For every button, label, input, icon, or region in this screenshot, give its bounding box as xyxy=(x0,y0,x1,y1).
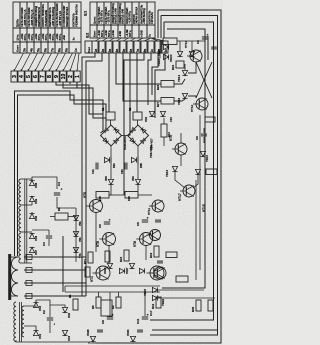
svg-text:50Гц: 50Гц xyxy=(128,30,132,37)
resistor R7 xyxy=(85,267,90,277)
svg-text:8а: 8а xyxy=(57,48,61,52)
wire loop hook 2 xyxy=(160,16,162,39)
svg-text:C1A: C1A xyxy=(92,169,95,174)
diode VD23 pair lower xyxy=(163,54,168,59)
svg-text:VT11: VT11 xyxy=(147,208,151,215)
capacitor C13 xyxy=(97,329,103,331)
diode VD7A chain xyxy=(73,247,78,252)
capacitor C8 top right xyxy=(202,36,208,38)
svg-text:VT12: VT12 xyxy=(190,104,194,112)
fan wires from table XS1 to pins xyxy=(14,53,23,71)
svg-text:VD8-V011: VD8-V011 xyxy=(149,145,153,158)
svg-text:R35: R35 xyxy=(191,306,195,312)
diode VD26 xyxy=(107,263,112,268)
svg-text:+: + xyxy=(52,323,56,325)
transistor VT10 xyxy=(190,50,202,62)
capacitor C5b polarized xyxy=(104,221,110,223)
svg-text:R19: R19 xyxy=(149,252,153,258)
wire XS2 pin 4v to R23 xyxy=(116,53,161,84)
svg-text:+: + xyxy=(146,217,150,219)
svg-text:C8: C8 xyxy=(196,40,200,44)
svg-text:1с: 1с xyxy=(72,37,76,41)
svg-text:VD10: VD10 xyxy=(205,155,209,162)
table XS2 band divider xyxy=(90,24,155,26)
svg-text:VD9: VD9 xyxy=(34,198,38,204)
wire T2 to bus bar xyxy=(11,256,18,258)
svg-text:R6B: R6B xyxy=(140,163,143,168)
wire bridge1 right vertex link xyxy=(122,135,128,137)
svg-text:1с: 1с xyxy=(74,48,78,52)
svg-text:VT9: VT9 xyxy=(169,135,173,141)
svg-text:VD8: VD8 xyxy=(34,182,38,188)
svg-text:VD14: VD14 xyxy=(177,75,181,82)
diode VD13 xyxy=(172,166,177,171)
svg-text:4в: 4в xyxy=(115,49,119,53)
wire lower-right horizontal y330 xyxy=(152,329,218,331)
wire XS2 pin 3c right bundle xyxy=(155,53,165,118)
svg-text:R10: R10 xyxy=(98,196,102,201)
diode VD8 winding1 top xyxy=(29,180,34,185)
svg-text:VT15: VT15 xyxy=(202,204,206,212)
wire bottom rail xyxy=(88,342,215,344)
svg-text:8: 8 xyxy=(47,75,53,78)
wire XS2 pin 1c right bundle xyxy=(148,53,151,105)
svg-text:VD27: VD27 xyxy=(125,267,129,274)
capacitor C10 xyxy=(155,219,161,221)
resistor R30 xyxy=(163,38,177,45)
diode VD17 xyxy=(139,268,144,273)
svg-text:+24В: +24В xyxy=(111,30,115,37)
terminal box v xyxy=(26,281,32,286)
svg-text:C4: C4 xyxy=(57,182,61,186)
wire output bus upper xyxy=(65,285,160,287)
svg-text:ВЫХОД +24В: ВЫХОД +24В xyxy=(115,8,118,24)
transistor VT9 xyxy=(175,143,187,155)
svg-text:VD6: VD6 xyxy=(34,235,38,241)
transformer T2 tap 2 xyxy=(24,269,86,271)
svg-text:VD25: VD25 xyxy=(157,49,161,56)
svg-text:VD14÷VD17: VD14÷VD17 xyxy=(123,135,127,150)
capacitor C6a below bridge2 xyxy=(124,163,126,170)
wire loop top-right outermost xyxy=(95,10,221,343)
connector table XS1 frame xyxy=(13,2,81,53)
wire winding taps to C3 row xyxy=(32,229,49,231)
svg-text:C2A: C2A xyxy=(121,169,124,174)
svg-text:R11: R11 xyxy=(83,259,87,264)
svg-text:VT1: VT1 xyxy=(90,276,94,282)
svg-text:6в: 6в xyxy=(129,49,133,53)
transformer T2 tap 1 xyxy=(24,256,86,258)
diode VD15 xyxy=(195,169,200,174)
svg-text:Шть: Шть xyxy=(16,34,20,40)
capacitor C6b polarized xyxy=(142,219,148,221)
svg-text:+: + xyxy=(60,188,64,190)
diode VD1L xyxy=(33,330,38,335)
svg-text:VD5: VD5 xyxy=(34,215,38,221)
resistor R15 xyxy=(124,250,129,261)
capacitor C4 polarized xyxy=(54,192,60,194)
diode VD22 xyxy=(152,295,157,300)
svg-text:R24: R24 xyxy=(171,64,175,70)
resistor R13 vertical xyxy=(161,124,167,137)
wire loop top-right third xyxy=(150,22,214,320)
svg-text:C2: C2 xyxy=(42,310,46,314)
wire top right block xyxy=(158,40,163,42)
wire crossing X right column xyxy=(196,62,212,98)
svg-text:VT6: VT6 xyxy=(96,241,100,247)
wire verticals right 195-270 xyxy=(195,180,197,280)
transistor VT11 xyxy=(152,200,164,212)
svg-text:VT5: VT5 xyxy=(83,192,87,198)
wire output bus lower xyxy=(65,291,160,293)
diode VD4L xyxy=(33,302,38,307)
wire XS1 pin2 stub xyxy=(69,82,71,84)
diode VD10 xyxy=(200,151,205,156)
component box bottom xyxy=(101,300,112,316)
svg-text:C6: C6 xyxy=(136,222,140,226)
wire C3 stubs xyxy=(48,230,50,235)
resistor R36 bottom right xyxy=(208,300,213,311)
transformer T2 tap 3 xyxy=(24,282,86,284)
transformer T1 winding group 2 xyxy=(19,206,21,232)
wire right column links xyxy=(174,79,185,84)
svg-text:ВЫХОДУ БЛОКА: ВЫХОДУ БЛОКА xyxy=(66,6,69,26)
svg-text:Цепь: Цепь xyxy=(93,16,97,24)
resistor R8 xyxy=(96,297,101,308)
svg-text:VD2: VD2 xyxy=(67,312,71,318)
svg-text:5: 5 xyxy=(26,75,32,78)
svg-text:+: + xyxy=(108,219,112,221)
capacitor C2 xyxy=(47,317,53,319)
transformer T2 primary winding xyxy=(12,257,19,296)
thyristor symbol module2 xyxy=(131,157,136,162)
svg-text:VD1: VD1 xyxy=(38,333,42,339)
svg-text:R15: R15 xyxy=(119,256,123,262)
connector XS2 pin header cell xyxy=(85,41,92,53)
svg-text:VD2: VD2 xyxy=(144,116,148,122)
svg-text:СИГНАЛА: СИГНАЛА xyxy=(151,12,154,24)
diode VD25 pair upper xyxy=(163,44,168,49)
diode VD9 winding1 bottom xyxy=(29,196,34,201)
svg-text:4: 4 xyxy=(19,75,25,78)
transistor VT6 xyxy=(103,233,116,246)
table XS2 column dividers xyxy=(96,2,98,38)
diode VD16 xyxy=(182,93,187,98)
wire lower-right horizontal y336 xyxy=(150,335,221,337)
wire C2 stubs xyxy=(49,305,51,317)
capacitor C19 xyxy=(211,46,217,48)
wire vertical right mid xyxy=(207,36,209,60)
wire XS2 pin 8v to mid rail xyxy=(124,53,144,195)
resistor R16 xyxy=(125,192,138,199)
svg-text:3: 3 xyxy=(12,75,18,78)
transistor VT12 xyxy=(196,98,208,110)
svg-text:R1: R1 xyxy=(101,107,105,111)
wire loop top-right second xyxy=(150,16,218,336)
capacitor C9 xyxy=(201,133,207,135)
resistor R12 xyxy=(156,297,161,308)
svg-text:5в: 5в xyxy=(122,49,126,53)
resistor R9 xyxy=(116,297,121,308)
wire left drop to output bus xyxy=(64,286,66,292)
diode VD27 xyxy=(129,263,134,268)
terminal box g xyxy=(26,294,32,299)
transformer T3 secondary xyxy=(22,306,24,337)
svg-text:VT17: VT17 xyxy=(178,193,182,201)
svg-text:-24В: -24В xyxy=(118,31,122,37)
wire left bus outer corner to bridge1 xyxy=(15,91,104,256)
svg-text:R8: R8 xyxy=(57,207,61,211)
svg-text:РЕЖИМА РАБОТЫ: РЕЖИМА РАБОТЫ xyxy=(75,4,78,27)
svg-text:VD9: VD9 xyxy=(132,176,135,181)
transistor VT13 xyxy=(150,230,161,241)
resistor R27 xyxy=(161,98,174,105)
wire XS2 to bridge2 left vertex xyxy=(128,53,131,136)
wire XS2 pin 5v to R27 xyxy=(123,53,161,101)
wire XS2 pin 3v to R1 xyxy=(108,53,110,112)
svg-text:3в: 3в xyxy=(108,49,112,53)
transformer T2 tap 4 xyxy=(24,295,86,297)
diode VD21 xyxy=(189,51,194,56)
transformer T1 winding group 3 xyxy=(19,233,21,263)
fan wires from table XS2 to its pins xyxy=(95,38,101,41)
svg-text:2в: 2в xyxy=(101,49,105,53)
diode chain rail xyxy=(75,208,77,262)
resistor R4L xyxy=(73,299,78,310)
svg-text:C5: C5 xyxy=(98,224,102,228)
svg-text:VT8: VT8 xyxy=(133,241,137,247)
wire R13 stubs xyxy=(163,118,165,124)
diode VD5 winding2 top xyxy=(29,213,34,218)
svg-text:ЭКРАН БЛОКА: ЭКРАН БЛОКА xyxy=(136,6,139,23)
wire XS1 pin10 route xyxy=(63,82,106,118)
diode VD14 wire xyxy=(184,64,186,70)
svg-text:+: + xyxy=(146,314,150,316)
wire R8 left xyxy=(50,216,55,218)
transistor VT3 xyxy=(150,266,164,280)
svg-text:ЗАЗЕМЛЕНИЕ: ЗАЗЕМЛЕНИЕ xyxy=(45,9,48,26)
capacitor C12 xyxy=(157,260,163,262)
svg-text:VD7: VD7 xyxy=(34,249,38,255)
resistor R33 rounded xyxy=(176,276,188,282)
transistor VT17 xyxy=(183,185,195,197)
terminal box b xyxy=(26,268,32,273)
svg-text:7в: 7в xyxy=(136,49,140,53)
thyristor symbol module1 xyxy=(104,157,109,162)
svg-text:C16: C16 xyxy=(169,117,173,122)
zener VD8z below module1 xyxy=(108,179,113,184)
wire bottom-left links xyxy=(24,306,36,308)
wire XS2 pin 2c right bundle xyxy=(152,53,158,95)
wire vertical x63 to output bus xyxy=(62,236,64,292)
transformer T3 core xyxy=(19,302,21,342)
capacitor C3 xyxy=(46,235,52,237)
svg-text:~220В 50Гц 1А: ~220В 50Гц 1А xyxy=(31,9,34,27)
svg-text:9: 9 xyxy=(54,75,60,78)
wire XS2 pin 1v staircase long xyxy=(82,53,95,296)
wire lower right horizontals xyxy=(150,319,215,321)
resistor R11 xyxy=(88,252,93,263)
capacitor C14 xyxy=(137,329,143,331)
diode VD3L xyxy=(62,330,67,335)
resistor R14 xyxy=(105,251,110,262)
svg-text:Конт: Конт xyxy=(93,30,97,37)
svg-text:R12: R12 xyxy=(151,303,155,309)
resistor R23 xyxy=(161,81,174,88)
svg-text:+50В ВЫХОД: +50В ВЫХОД xyxy=(143,8,146,24)
diode VD7 winding3 xyxy=(29,247,34,252)
diode VD6A chain xyxy=(73,231,78,236)
terminal bar primary xyxy=(8,254,11,300)
svg-text:~6,3В 50Гц: ~6,3В 50Гц xyxy=(129,11,132,24)
wire loop hook 1 xyxy=(157,10,159,38)
diode VD5A chain xyxy=(73,215,78,220)
svg-text:Ш1: Ш1 xyxy=(84,11,88,16)
wire left bus inner corner to bridge1 xyxy=(18,95,107,256)
diode VD30 xyxy=(130,336,135,341)
svg-text:VD8: VD8 xyxy=(105,176,108,181)
wire C4 down to R8 node xyxy=(57,197,76,208)
connector table XS2 frame xyxy=(90,2,155,38)
wire VD9z to R16 xyxy=(137,185,139,192)
table XS1 column dividers xyxy=(19,2,21,53)
svg-text:7а: 7а xyxy=(50,48,54,52)
svg-text:ВЫПРЯМИТЕЛЯ: ВЫПРЯМИТЕЛЯ xyxy=(38,7,41,27)
svg-text:~127В 50Гц: ~127В 50Гц xyxy=(101,10,104,24)
svg-text:ВЫХОД -24В: ВЫХОД -24В xyxy=(122,9,125,24)
svg-text:VD3: VD3 xyxy=(67,335,71,341)
wire amp row links xyxy=(95,213,97,253)
wire bottom grid verticals xyxy=(98,292,100,297)
bridge rectifier VD4-VD7 diamond xyxy=(128,125,149,146)
svg-text:~220В 50Гц 1А: ~220В 50Гц 1А xyxy=(24,9,27,27)
wire bridge1 top xyxy=(110,120,112,125)
svg-text:1с: 1с xyxy=(150,49,154,53)
svg-text:R16: R16 xyxy=(127,196,131,201)
diode VD28 xyxy=(90,336,95,341)
svg-text:10: 10 xyxy=(61,74,67,80)
wire bottom rail left xyxy=(16,340,90,342)
resistor R24 xyxy=(176,61,184,68)
svg-text:VD30: VD30 xyxy=(126,329,130,336)
transformer T1 winding group 1 xyxy=(19,179,21,205)
wire XS2 pin 7v to R2 xyxy=(136,53,138,112)
svg-text:6: 6 xyxy=(33,75,39,78)
svg-text:C8: C8 xyxy=(101,320,105,324)
wire T1 taps xyxy=(21,178,32,180)
transistor VT21 xyxy=(154,267,166,279)
svg-text:+5В: +5В xyxy=(62,35,66,40)
resistor R35 bottom right xyxy=(196,300,201,311)
wire loop hook 3 xyxy=(163,22,165,38)
transformer T3 winding xyxy=(14,302,16,342)
svg-text:V6A: V6A xyxy=(79,237,82,242)
wire loop top-right fourth xyxy=(162,29,205,288)
svg-text:R8: R8 xyxy=(91,305,95,309)
wire right mid links xyxy=(167,128,204,130)
resistor R10 xyxy=(96,192,109,199)
wire VD25 row xyxy=(158,289,204,291)
svg-text:Конт: Конт xyxy=(88,46,91,52)
svg-text:1: 1 xyxy=(75,75,81,78)
svg-text:1с: 1с xyxy=(148,33,152,37)
resistor R1 above bridge1 xyxy=(106,112,115,120)
connector XS2 pin boxes xyxy=(92,41,98,53)
capacitor C5a below bridge1 xyxy=(95,163,97,170)
svg-text:V5A: V5A xyxy=(79,221,82,226)
svg-text:+50В: +50В xyxy=(140,30,144,37)
resistor R21 xyxy=(166,252,177,258)
svg-text:~24В 50Гц 2А: ~24В 50Гц 2А xyxy=(59,11,62,27)
svg-text:VD23: VD23 xyxy=(157,59,161,66)
connector XS1 pin boxes xyxy=(11,71,17,82)
svg-text:VD28: VD28 xyxy=(86,329,90,336)
diode VD14 xyxy=(182,70,187,75)
svg-text:C9: C9 xyxy=(195,136,199,140)
svg-text:C11: C11 xyxy=(136,318,140,324)
svg-text:R6A: R6A xyxy=(113,163,116,168)
zener VD9z below module2 xyxy=(135,179,140,184)
diode VD2L xyxy=(62,307,67,312)
diode VD20 xyxy=(177,51,182,56)
svg-text:+: + xyxy=(206,34,210,36)
bridge rectifier VD14-VD17 diamond xyxy=(101,125,122,146)
transistor VT1 xyxy=(96,266,110,280)
svg-text:R23: R23 xyxy=(156,84,160,90)
capacitor C11 polarized xyxy=(142,316,148,318)
svg-text:1в: 1в xyxy=(94,49,98,53)
svg-text:4а: 4а xyxy=(29,48,33,52)
resistor R26 xyxy=(205,117,215,122)
resistor R8 xyxy=(55,213,68,220)
svg-text:VT10: VT10 xyxy=(184,40,188,48)
wire bridge2 bottom xyxy=(137,146,139,179)
wire VD8z to R10 xyxy=(109,185,111,195)
transformer T1 core lines xyxy=(24,179,26,263)
svg-text:VD20: VD20 xyxy=(169,54,173,62)
svg-text:Цепь: Цепь xyxy=(16,19,20,27)
svg-text:R27: R27 xyxy=(156,101,160,107)
svg-text:6а: 6а xyxy=(43,48,47,52)
transistor VT5 xyxy=(90,200,103,213)
svg-text:~127В 50Гц: ~127В 50Гц xyxy=(108,10,111,24)
svg-text:2: 2 xyxy=(68,75,74,78)
wire bridge2 top xyxy=(137,120,139,125)
capacitor C8 bottom polarized xyxy=(107,316,113,318)
diode VD4 bottom pair xyxy=(160,111,165,116)
wire diode outputs to C4 xyxy=(32,177,57,189)
svg-text:VD13: VD13 xyxy=(165,170,169,177)
wire XS1 pin1 stub xyxy=(76,82,78,88)
svg-text:R2: R2 xyxy=(128,107,132,111)
svg-text:7: 7 xyxy=(40,75,46,78)
terminal box a xyxy=(26,255,32,260)
svg-text:9а: 9а xyxy=(64,48,68,52)
wire XS2 pin 2v staircase long xyxy=(86,53,102,296)
svg-text:3а: 3а xyxy=(22,48,26,52)
svg-text:+24В 2А ВЫХОД: +24В 2А ВЫХОД xyxy=(52,7,55,27)
diode VD2 bottom pair xyxy=(149,111,154,116)
svg-text:8в: 8в xyxy=(143,49,147,53)
wire VD22 row xyxy=(158,297,215,299)
resistor R2 above bridge2 xyxy=(133,112,142,120)
diode VD16 xyxy=(119,268,124,273)
svg-text:VD22: VD22 xyxy=(161,299,165,306)
resistor R19 xyxy=(154,246,159,257)
wire XS1 pin8 route xyxy=(56,82,103,114)
svg-text:5а: 5а xyxy=(36,48,40,52)
resistor R29 xyxy=(206,169,217,175)
